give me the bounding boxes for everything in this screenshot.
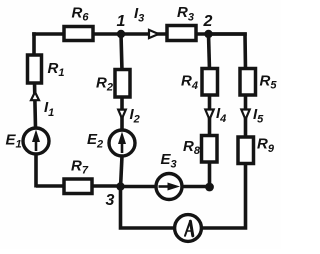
current arrow I5 xyxy=(241,110,249,120)
wire R2 to E2 xyxy=(120,96,124,130)
svg-text:3: 3 xyxy=(106,192,115,209)
resistor R1 xyxy=(28,55,42,83)
wire node2 to top-right corner and down xyxy=(208,34,246,70)
resistor R9 xyxy=(238,137,254,164)
EMF source E1 xyxy=(23,128,49,154)
wire top left-to-right xyxy=(34,32,245,36)
wire node1 down to R2 xyxy=(121,34,122,71)
wire junction up to R8 xyxy=(208,160,212,187)
EMF source E3 xyxy=(156,174,182,200)
resistor R6 xyxy=(64,27,93,41)
resistor R2 xyxy=(115,70,130,98)
current arrow I1 xyxy=(31,92,39,100)
wire left branch down xyxy=(32,34,36,56)
resistor R7 xyxy=(64,179,92,194)
wire R9 down to bottom-right corner xyxy=(203,161,246,228)
svg-text:2: 2 xyxy=(203,13,213,30)
current arrow I2 xyxy=(118,110,126,119)
node 2 xyxy=(204,30,212,38)
node 3 xyxy=(116,182,124,190)
junction E3-R8 xyxy=(205,183,214,192)
current arrow I3 xyxy=(149,30,159,38)
wire R5 to R9 xyxy=(244,92,248,138)
wire E3 to junction xyxy=(180,185,210,189)
svg-text:1: 1 xyxy=(117,13,126,30)
resistor R5 xyxy=(240,69,256,96)
wire R8 to R4 via I4 xyxy=(208,96,212,137)
EMF source E2 xyxy=(109,130,135,156)
ammeter A xyxy=(175,215,202,242)
wire E1 to bottom-left corner xyxy=(36,154,122,188)
resistor R4 xyxy=(202,69,218,96)
wire R4 up to node2 xyxy=(209,34,210,70)
resistor R8 xyxy=(202,136,218,163)
resistor R3 xyxy=(167,26,196,41)
wire ammeter to node3 riser xyxy=(121,187,175,229)
current arrow I4 xyxy=(205,110,213,120)
node 1 xyxy=(117,30,125,38)
wire R1 to E1 xyxy=(35,82,36,128)
wire E2 to node3 xyxy=(121,156,123,188)
wire node3 to E3 xyxy=(121,185,161,189)
